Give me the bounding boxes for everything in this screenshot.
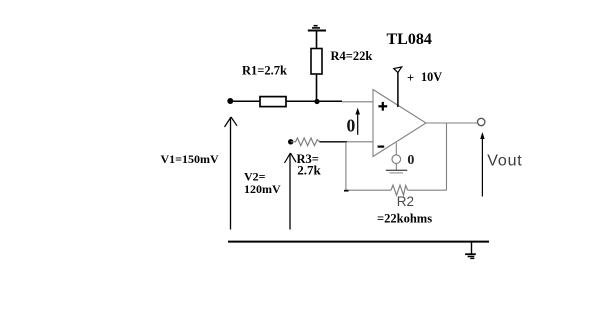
svg-text:TL084: TL084 xyxy=(387,31,432,48)
svg-text:0: 0 xyxy=(407,153,414,168)
svg-text:=22kohms: =22kohms xyxy=(377,212,432,226)
svg-text:R2: R2 xyxy=(397,194,414,209)
svg-text:R4=22k: R4=22k xyxy=(331,49,373,63)
svg-text:V1=150mV: V1=150mV xyxy=(161,152,220,166)
svg-text:+: + xyxy=(407,71,414,85)
svg-text:Vout: Vout xyxy=(487,152,522,169)
svg-text:0: 0 xyxy=(347,116,356,136)
svg-text:120mV: 120mV xyxy=(244,182,281,196)
svg-text:2.7k: 2.7k xyxy=(297,163,321,178)
svg-text:10V: 10V xyxy=(421,70,442,84)
svg-text:R1=2.7k: R1=2.7k xyxy=(242,64,287,78)
